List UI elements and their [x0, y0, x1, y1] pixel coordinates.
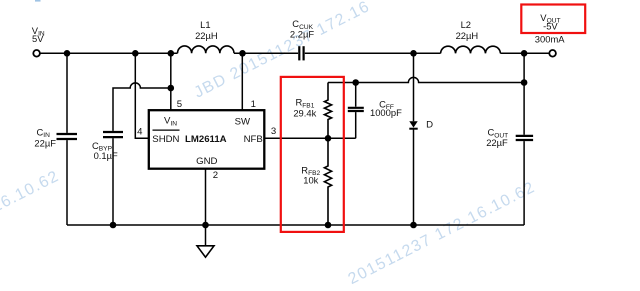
svg-text:29.4k: 29.4k — [293, 108, 316, 119]
wire GND pin2 — [205, 169, 207, 225]
svg-text:L1: L1 — [200, 19, 210, 30]
wire CFF bottom lead — [355, 112, 357, 138]
wire CCUK to node A — [305, 52, 441, 54]
svg-text:SHDN: SHDN — [152, 134, 179, 145]
capacitor CFF — [348, 110, 364, 112]
wire CFF top lead — [355, 83, 357, 107]
wire SHDN branch — [135, 53, 149, 138]
svg-text:22µH: 22µH — [195, 30, 218, 41]
svg-text:5V: 5V — [32, 33, 44, 44]
resistor RFB2 — [324, 138, 331, 225]
node CBYP ground — [110, 222, 117, 229]
red box VOUT — [521, 5, 585, 34]
wire L2 to output terminal — [500, 52, 549, 54]
wire diode branch upper — [413, 53, 415, 121]
svg-text:1: 1 — [251, 99, 256, 110]
node IC ground — [202, 222, 209, 229]
svg-text:22µF: 22µF — [486, 137, 508, 148]
red box feedback divider — [281, 77, 344, 232]
svg-text:300mA: 300mA — [535, 33, 565, 44]
svg-text:22µH: 22µH — [456, 30, 479, 41]
node pin5 bypass — [168, 85, 175, 92]
node VIN rail / CIN — [64, 50, 71, 57]
wire CBYP to ground rail — [112, 138, 114, 225]
terminal VIN — [33, 50, 40, 57]
diode D — [409, 121, 417, 127]
svg-text:1000pF: 1000pF — [370, 107, 402, 118]
svg-text:2.2µF: 2.2µF — [290, 29, 314, 40]
wire NFB pin3 — [264, 137, 355, 139]
wire CIN to ground rail — [66, 140, 68, 225]
svg-text:NFB: NFB — [244, 134, 263, 145]
capacitor CBYP — [103, 131, 123, 133]
wire output vertical — [523, 53, 525, 135]
wire SW pin1 branch — [241, 53, 243, 110]
svg-text:2: 2 — [213, 170, 218, 181]
wire bottom ground rail — [67, 224, 524, 226]
resistor RFB1 — [324, 83, 331, 139]
svg-text:0.1µF: 0.1µF — [94, 150, 118, 161]
capacitor COUT — [516, 135, 533, 137]
capacitor CIN — [57, 133, 78, 135]
svg-text:SW: SW — [235, 116, 251, 127]
node diode ground — [410, 222, 417, 229]
IC U1 LM2611A body — [149, 110, 264, 169]
wire VIN pin5 branch — [170, 53, 172, 110]
wire COUT to ground rail — [523, 141, 525, 225]
svg-text:L2: L2 — [461, 19, 471, 30]
svg-text:10k: 10k — [303, 174, 318, 185]
node feedback VOUT — [521, 79, 528, 86]
node A diode top — [410, 50, 417, 57]
node SHDN tap — [132, 50, 139, 57]
svg-text:-5V: -5V — [543, 20, 558, 31]
wire L1 to CCUK — [234, 52, 298, 54]
wire CIN branch — [66, 53, 68, 133]
wire top rail VIN to L1 — [40, 52, 178, 54]
svg-text:5: 5 — [177, 99, 182, 110]
pin label SHDN overbar — [153, 129, 180, 131]
wire diode branch lower — [413, 129, 415, 225]
node SW — [239, 50, 246, 57]
svg-text:LM2611A: LM2611A — [185, 134, 227, 145]
svg-text:4: 4 — [137, 127, 143, 138]
inductor L1 — [178, 46, 234, 53]
wire CBYP to pin5 node with hop — [113, 83, 171, 131]
node NFB divider — [325, 135, 332, 142]
inductor L2 — [441, 46, 501, 53]
svg-text:3: 3 — [271, 126, 276, 137]
svg-text:D: D — [426, 119, 433, 130]
node RFB2 ground — [325, 222, 332, 229]
node CFF top — [352, 79, 359, 86]
node pin5 tap — [168, 50, 175, 57]
svg-text:22µF: 22µF — [34, 137, 56, 148]
svg-text:GND: GND — [196, 156, 217, 167]
ground — [205, 225, 207, 246]
watermark fragment top edge — [35, 0, 41, 2]
wire feedback node to VOUT with hop — [328, 77, 524, 82]
terminal VOUT — [549, 50, 556, 57]
node VOUT top — [521, 50, 528, 57]
capacitor CCUK — [298, 46, 300, 60]
